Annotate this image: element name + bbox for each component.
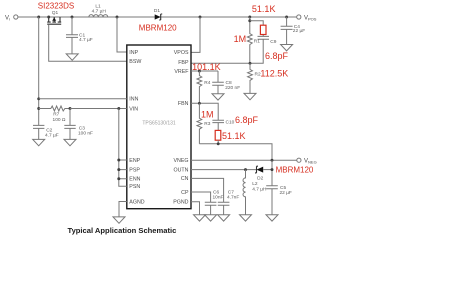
ground below C1: [66, 54, 78, 60]
svg-text:Vi: Vi: [5, 15, 10, 21]
svg-text:6.8pF: 6.8pF: [265, 51, 289, 61]
svg-text:22 µF: 22 µF: [293, 28, 305, 34]
svg-text:CP: CP: [181, 190, 189, 196]
ground below C5: [266, 215, 278, 221]
svg-text:ENN: ENN: [129, 177, 140, 183]
svg-text:R3: R3: [204, 121, 210, 127]
svg-text:C10: C10: [226, 119, 235, 125]
svg-text:1M: 1M: [234, 34, 247, 44]
ground below R2: [244, 93, 256, 99]
ground PGND: [194, 215, 206, 221]
svg-text:112.5K: 112.5K: [260, 69, 288, 79]
resistor 51.1K feedforward (red box): [250, 21, 266, 37]
capacitor C10: [212, 119, 234, 130]
svg-text:PSP: PSP: [129, 167, 140, 173]
ground below L2: [240, 215, 252, 221]
svg-text:FBP: FBP: [178, 60, 189, 66]
svg-text:INN: INN: [129, 97, 138, 103]
wire FBP: [191, 62, 250, 64]
wire top rail: [18, 16, 297, 18]
transistor Q1: [47, 10, 61, 24]
wire PGND: [191, 202, 200, 215]
node Vi input terminal: [5, 15, 18, 22]
svg-text:VREF: VREF: [174, 69, 189, 75]
wire CN to C7: [191, 178, 224, 202]
svg-text:Q1: Q1: [52, 10, 59, 16]
ground AGND: [113, 217, 125, 223]
node VPOS output terminal: [297, 15, 317, 22]
capacitor C9: [250, 36, 277, 63]
svg-text:Typical Application Schematic: Typical Application Schematic: [68, 226, 177, 235]
svg-text:MBRM120: MBRM120: [139, 24, 177, 33]
wire VPOS riser: [199, 16, 202, 19]
capacitor C8: [212, 71, 240, 94]
capacitor C7: [218, 190, 240, 215]
svg-text:R7: R7: [53, 112, 59, 118]
svg-text:ENP: ENP: [129, 158, 140, 164]
svg-text:VNEG: VNEG: [173, 158, 188, 164]
wire enable rail ENP PSP ENN PSN: [117, 107, 127, 186]
diode D1: [154, 8, 162, 20]
wire AGND: [119, 202, 127, 217]
svg-text:OUTN: OUTN: [173, 168, 188, 174]
wire input rail down: [38, 17, 40, 125]
ground below C3: [64, 139, 76, 145]
ground below C7: [218, 215, 230, 221]
wire VNEG: [191, 159, 297, 161]
capacitor C5: [266, 185, 292, 215]
svg-text:BSW: BSW: [129, 59, 141, 65]
svg-text:PGND: PGND: [173, 200, 188, 206]
wire INN: [37, 97, 40, 100]
svg-text:L2: L2: [252, 181, 258, 187]
svg-text:D1: D1: [154, 8, 160, 14]
inductor L1: [89, 3, 108, 17]
ground below C4: [281, 45, 293, 51]
node junction input rail: [37, 16, 40, 19]
wire FBN: [191, 103, 218, 120]
svg-text:220 nF: 220 nF: [225, 85, 240, 91]
wire Q1 gate to BSW: [49, 24, 127, 61]
wire VNEG node down: [271, 160, 273, 186]
wire feedback to VNEG: [199, 142, 272, 160]
svg-text:TPS65130/131: TPS65130/131: [142, 120, 176, 126]
svg-text:4.7nF: 4.7nF: [227, 195, 239, 201]
svg-text:MBRM120: MBRM120: [276, 165, 314, 174]
svg-text:VPOS: VPOS: [174, 50, 189, 56]
inductor L2: [243, 170, 267, 215]
wire OUTN: [191, 169, 257, 171]
wire CP to C6: [191, 192, 211, 202]
svg-text:4.7 µF: 4.7 µF: [45, 132, 59, 138]
svg-text:FBN: FBN: [178, 101, 189, 107]
svg-text:100 nF: 100 nF: [78, 130, 93, 136]
resistor R3: [197, 103, 211, 144]
ground below C8: [212, 94, 224, 100]
svg-text:D2: D2: [257, 176, 263, 182]
svg-text:4.7 µH: 4.7 µH: [252, 186, 267, 192]
svg-text:51.1K: 51.1K: [222, 131, 246, 141]
op-amp U1 TPS65130 IC body: [127, 45, 191, 209]
svg-text:R4: R4: [204, 80, 210, 86]
capacitor C2: [33, 125, 59, 139]
resistor 51.1K feedforward neg (red box): [215, 130, 221, 143]
svg-text:VPOS: VPOS: [304, 15, 317, 21]
svg-text:CN: CN: [181, 176, 189, 182]
ground below C2: [33, 139, 45, 145]
svg-text:INP: INP: [129, 50, 138, 56]
svg-text:SI2323DS: SI2323DS: [38, 1, 74, 10]
resistor R2: [248, 63, 261, 93]
diode D2: [255, 166, 272, 181]
wire top rail to INP: [116, 16, 119, 19]
capacitor C1: [66, 16, 93, 54]
svg-text:C9: C9: [270, 39, 276, 45]
svg-text:101.1K: 101.1K: [192, 62, 221, 72]
ground below C6: [205, 215, 217, 221]
svg-text:1M: 1M: [201, 109, 214, 119]
svg-text:51.1K: 51.1K: [252, 4, 276, 14]
svg-text:4.7 µH: 4.7 µH: [92, 8, 107, 14]
capacitor C4: [281, 16, 306, 45]
svg-text:PSN: PSN: [129, 184, 140, 190]
wire VIN to IC: [69, 107, 72, 110]
svg-text:100 Ω: 100 Ω: [53, 117, 66, 123]
svg-text:AGND: AGND: [129, 199, 144, 205]
svg-text:22 µF: 22 µF: [280, 190, 292, 196]
resistor R4: [197, 71, 211, 103]
resistor R7 on VIN wire: [37, 106, 70, 123]
svg-text:VIN: VIN: [129, 106, 138, 112]
resistor R1: [247, 17, 260, 63]
capacitor C3: [64, 109, 93, 140]
svg-text:VNEG: VNEG: [304, 159, 317, 165]
wire VREF: [191, 70, 218, 72]
svg-text:6.8pF: 6.8pF: [235, 115, 259, 125]
svg-text:4.7 µF: 4.7 µF: [79, 37, 93, 43]
svg-text:10nF: 10nF: [213, 195, 224, 201]
capacitor C6: [205, 190, 224, 215]
node VNEG output terminal: [297, 158, 317, 165]
node positive divider junction: [248, 16, 251, 19]
